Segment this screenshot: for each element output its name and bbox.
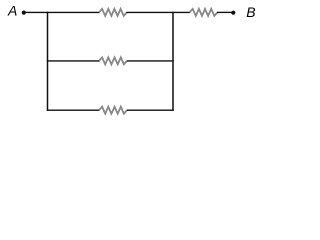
resistor R3 (middle parallel branch) [99, 57, 127, 64]
svg-text:B: B [246, 4, 255, 20]
wire: middle branch, left rail to resistor R3 [47, 60, 100, 62]
wire: bottom branch, left rail to resistor R4 [47, 109, 100, 111]
resistor R4 (bottom parallel branch) [99, 107, 127, 114]
wire: resistor R1 to right rail junction [126, 11, 173, 13]
wire: bottom branch, resistor R4 to right rail [127, 109, 174, 111]
svg-text:A: A [7, 2, 17, 18]
wire: resistor R2 to node B [217, 11, 233, 13]
wire: right rail (vertical) [172, 12, 174, 111]
node B terminal dot [231, 11, 235, 15]
wire: left rail (vertical) [47, 12, 49, 111]
node A terminal dot [22, 11, 26, 15]
wire: left rail junction to resistor R1 [47, 11, 100, 13]
wire: node A to left rail junction [25, 11, 48, 13]
resistor R1 (top parallel branch) [99, 9, 127, 16]
wire: middle branch, resistor R3 to right rail [127, 60, 174, 62]
wire: right rail junction to resistor R2 [172, 11, 190, 13]
resistor R2 (series, to node B) [190, 9, 218, 16]
